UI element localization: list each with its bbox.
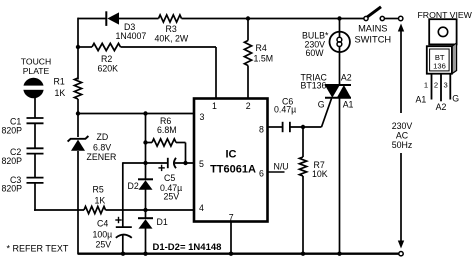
wire triac gate diagonal bbox=[322, 99, 332, 128]
triac BT136 bbox=[325, 85, 351, 98]
svg-text:G: G bbox=[452, 93, 459, 103]
triac gate G label bbox=[318, 100, 325, 110]
wire left vertical (touch node) bbox=[77, 18, 79, 137]
zener diode ZD bbox=[68, 136, 89, 151]
svg-text:R3: R3 bbox=[166, 24, 177, 34]
front view label bbox=[418, 10, 473, 20]
node junction bottom rail R7 bbox=[301, 252, 305, 256]
capacitor C6 bbox=[283, 122, 290, 132]
svg-text:60W: 60W bbox=[306, 48, 325, 58]
terminal mains bottom bbox=[399, 252, 403, 256]
svg-text:50Hz: 50Hz bbox=[392, 140, 413, 150]
IC pin 8 label bbox=[259, 124, 264, 134]
wire top rail left segment bbox=[78, 18, 106, 20]
BT136 package body bbox=[427, 43, 457, 74]
IC pin 1 label bbox=[212, 101, 217, 111]
svg-text:A1: A1 bbox=[416, 94, 427, 104]
IC pin 2 label bbox=[246, 101, 251, 111]
svg-text:MAINS: MAINS bbox=[358, 23, 387, 33]
svg-text:D2: D2 bbox=[128, 181, 139, 191]
wire mid vertical D1-D2 column bbox=[145, 114, 147, 255]
IC pin 7 label bbox=[229, 212, 234, 222]
R1 value label bbox=[54, 77, 66, 99]
svg-text:2: 2 bbox=[434, 80, 438, 89]
svg-text:7: 7 bbox=[229, 212, 234, 222]
pin 6 N/U label bbox=[274, 162, 289, 172]
node junction R1-R2 bbox=[76, 45, 80, 49]
wire C3 to R5 corner bbox=[34, 184, 36, 211]
IC pin 6 label bbox=[259, 169, 264, 179]
wire pin1 drop bbox=[215, 47, 217, 98]
resistor R6 bbox=[152, 139, 176, 146]
svg-text:6.8V: 6.8V bbox=[93, 142, 111, 152]
BT136 package label bbox=[433, 53, 446, 71]
wire pin3 row bbox=[78, 113, 194, 115]
node junction R1 bottom / pin3 rail bbox=[76, 111, 80, 115]
wire pin7 drop bbox=[230, 221, 232, 255]
node junction top rail bulb bbox=[337, 16, 341, 20]
wire C4 branch bottom bbox=[122, 236, 124, 255]
wire R4 top bbox=[247, 19, 249, 41]
triac terminal A1 label bbox=[343, 100, 354, 110]
svg-text:136: 136 bbox=[433, 62, 446, 71]
svg-text:G: G bbox=[318, 100, 325, 110]
svg-text:R1: R1 bbox=[54, 77, 65, 87]
svg-text:C4: C4 bbox=[97, 219, 108, 229]
svg-text:2: 2 bbox=[246, 101, 251, 111]
wire R2 row bbox=[78, 46, 216, 48]
resistor R1 bbox=[74, 78, 81, 99]
resistor R7 bbox=[299, 157, 306, 176]
package pin 2 bbox=[440, 74, 442, 102]
svg-text:SWITCH: SWITCH bbox=[354, 35, 391, 45]
svg-text:5: 5 bbox=[199, 159, 204, 169]
wire C5 row bbox=[123, 162, 194, 164]
IC name label bbox=[210, 148, 256, 175]
mains switch bbox=[364, 7, 398, 21]
wire R4 to pin2 bbox=[247, 66, 249, 98]
capacitor C4 (electrolytic) bbox=[116, 227, 132, 238]
wire bulb to triac bbox=[339, 52, 341, 85]
svg-text:ZENER: ZENER bbox=[87, 152, 117, 162]
wire touch plate to C1 bbox=[34, 98, 36, 119]
resistor R3 bbox=[159, 15, 182, 22]
touch plate electrode bbox=[21, 78, 46, 99]
svg-text:R5: R5 bbox=[93, 185, 104, 195]
node junction C5 row right (pin5) bbox=[183, 161, 187, 165]
svg-text:* REFER TEXT: * REFER TEXT bbox=[7, 244, 69, 254]
capacitor C1 bbox=[27, 118, 44, 123]
svg-text:1N4007: 1N4007 bbox=[116, 31, 147, 41]
wire R7 top bbox=[302, 127, 304, 157]
capacitor C3 bbox=[27, 178, 44, 183]
diode D2 bbox=[138, 179, 153, 189]
svg-text:820P: 820P bbox=[2, 184, 23, 194]
svg-text:10K: 10K bbox=[312, 169, 328, 179]
triac labels bbox=[301, 72, 328, 90]
wire C1-C2 bbox=[34, 124, 36, 148]
R7 value label bbox=[312, 160, 328, 179]
diode D3 bbox=[106, 11, 119, 26]
R6 value label bbox=[157, 116, 177, 135]
R2 value label bbox=[98, 54, 119, 74]
wire top rail D3-R3 segment bbox=[118, 18, 159, 20]
wire C2-C3 bbox=[34, 154, 36, 178]
svg-text:6: 6 bbox=[259, 169, 264, 179]
svg-text:TT6061A: TT6061A bbox=[210, 164, 256, 176]
BT136 package tab bbox=[429, 19, 456, 44]
wire R5 pin4 row bbox=[34, 209, 194, 211]
C5 plus sign bbox=[158, 165, 164, 171]
IC pin 3 label bbox=[200, 112, 205, 122]
svg-text:820P: 820P bbox=[2, 156, 23, 166]
IC pin 5 label bbox=[199, 159, 204, 169]
AC source arrow up bbox=[398, 24, 404, 114]
D2 label bbox=[128, 181, 139, 191]
bulb value label bbox=[302, 30, 329, 58]
svg-text:25V: 25V bbox=[164, 192, 180, 202]
C1 value label bbox=[2, 117, 23, 136]
wire pin8 row bbox=[268, 126, 322, 128]
svg-text:8: 8 bbox=[259, 124, 264, 134]
wire zener to bottom rail bbox=[77, 151, 79, 255]
bulb lamp symbol bbox=[330, 32, 350, 52]
svg-text:C5: C5 bbox=[164, 173, 175, 183]
diode D1 bbox=[138, 218, 153, 228]
svg-text:3: 3 bbox=[443, 80, 447, 89]
R3 value label bbox=[155, 24, 189, 44]
IC pin 4 label bbox=[199, 203, 204, 213]
svg-text:3: 3 bbox=[200, 112, 205, 122]
D1 label bbox=[157, 217, 168, 227]
triac terminal A2 label bbox=[341, 72, 352, 82]
node junction bottom rail pin7 bbox=[229, 252, 233, 256]
package terminal labels bbox=[416, 93, 460, 112]
node junction bottom rail D1 bbox=[143, 252, 147, 256]
wire bulb branch top bbox=[339, 19, 341, 33]
C4 plus sign bbox=[115, 217, 121, 223]
svg-text:PLATE: PLATE bbox=[23, 66, 50, 76]
svg-text:4: 4 bbox=[199, 203, 204, 213]
note refer text bbox=[7, 244, 69, 254]
svg-text:D1-D2= 1N4148: D1-D2= 1N4148 bbox=[153, 242, 222, 253]
svg-text:1: 1 bbox=[424, 80, 428, 89]
AC source label bbox=[392, 121, 413, 150]
svg-text:0.47µ: 0.47µ bbox=[274, 105, 296, 115]
svg-text:IC: IC bbox=[226, 148, 237, 160]
svg-text:40K, 2W: 40K, 2W bbox=[155, 34, 189, 44]
svg-text:R4: R4 bbox=[256, 43, 267, 53]
svg-text:100µ: 100µ bbox=[93, 229, 113, 239]
svg-text:BT136: BT136 bbox=[301, 81, 327, 91]
capacitor C5 bbox=[168, 158, 176, 168]
touch plate label bbox=[21, 57, 51, 77]
svg-text:1K: 1K bbox=[95, 196, 106, 206]
svg-text:1: 1 bbox=[212, 101, 217, 111]
op-amp IC U1 TT6061A box bbox=[194, 99, 268, 222]
node junction pin3 row mid bbox=[143, 111, 147, 115]
note D1-D2 value bbox=[153, 242, 222, 253]
node junction C5 row left bbox=[143, 161, 147, 165]
svg-text:1K: 1K bbox=[55, 88, 66, 98]
C2 value label bbox=[2, 147, 23, 166]
node junction R6 tap bbox=[143, 140, 147, 144]
svg-text:D1: D1 bbox=[157, 217, 168, 227]
mains switch label bbox=[354, 23, 391, 44]
svg-text:R2: R2 bbox=[101, 54, 112, 64]
C4 value label bbox=[93, 219, 113, 250]
wire R6 row bbox=[146, 143, 186, 164]
ZD value label bbox=[87, 132, 117, 162]
svg-text:6.8M: 6.8M bbox=[157, 125, 177, 135]
svg-text:620K: 620K bbox=[98, 64, 119, 74]
wire bottom rail bbox=[78, 252, 400, 254]
resistor R5 bbox=[84, 206, 106, 213]
svg-text:820P: 820P bbox=[2, 126, 23, 136]
node junction pin4 row mid bbox=[143, 208, 147, 212]
wire pin6 stub (N/U) bbox=[268, 171, 285, 173]
wire R7 bottom bbox=[302, 176, 304, 255]
C3 value label bbox=[2, 175, 23, 194]
R5 value label bbox=[93, 185, 106, 206]
svg-text:25V: 25V bbox=[96, 240, 112, 250]
C6 value label bbox=[274, 97, 296, 115]
svg-text:TOUCH: TOUCH bbox=[21, 57, 51, 67]
R4 value label bbox=[254, 43, 274, 63]
wire top rail R3-switch segment bbox=[182, 18, 367, 20]
svg-text:A1: A1 bbox=[343, 100, 354, 110]
wire C4 branch top bbox=[122, 162, 124, 227]
package pin number labels bbox=[424, 80, 448, 89]
resistor R4 bbox=[244, 41, 251, 66]
svg-text:A2: A2 bbox=[341, 72, 352, 82]
capacitor C2 bbox=[27, 148, 44, 153]
svg-text:ZD: ZD bbox=[97, 132, 109, 142]
terminal mains top bbox=[399, 16, 403, 20]
svg-text:1.5M: 1.5M bbox=[254, 53, 274, 63]
node junction C6-R7-gate bbox=[301, 125, 305, 129]
svg-text:N/U: N/U bbox=[274, 162, 289, 172]
package pin 3 bbox=[449, 74, 451, 100]
wire triac to bottom rail bbox=[339, 98, 341, 255]
svg-text:AC: AC bbox=[396, 130, 409, 140]
node junction bottom rail C4 bbox=[121, 252, 125, 256]
D3 value label bbox=[116, 22, 147, 41]
AC source arrow down bbox=[398, 153, 404, 249]
node junction bottom rail triac bbox=[337, 252, 341, 256]
C5 value label bbox=[160, 173, 182, 202]
svg-text:A2: A2 bbox=[436, 102, 447, 112]
resistor R2 bbox=[92, 43, 121, 50]
node junction top rail R4 bbox=[246, 16, 250, 20]
package pin 1 bbox=[431, 74, 433, 100]
